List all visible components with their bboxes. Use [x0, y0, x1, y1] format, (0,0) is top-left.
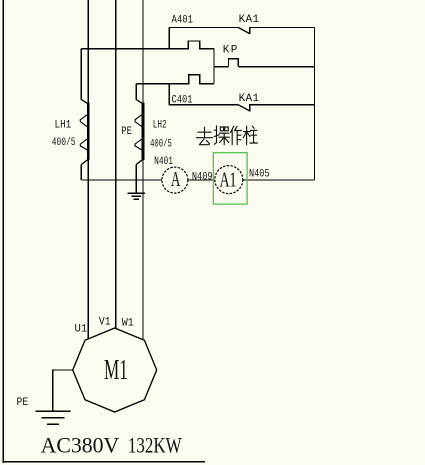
wire phase L2 vertical [115, 0, 117, 328]
svg-text:N405: N405 [249, 169, 270, 181]
wire phase L1 vertical [87, 0, 89, 339]
svg-text:400/5: 400/5 [52, 137, 76, 149]
svg-text:W1: W1 [122, 318, 134, 330]
wire phase L3 vertical [142, 0, 144, 340]
current transformer LH1 [80, 49, 88, 180]
wire PE motor lead [53, 370, 73, 411]
svg-text:400/5: 400/5 [150, 139, 172, 151]
svg-text:A401: A401 [172, 15, 194, 27]
svg-text:PE: PE [121, 126, 132, 138]
ground PE (motor) [35, 411, 70, 424]
wire C401 line [169, 104, 238, 106]
svg-text:N409: N409 [192, 172, 213, 184]
wire meter line left [81, 179, 161, 181]
wire KP line [214, 66, 229, 68]
wire N409 segment [188, 179, 215, 181]
frame left border [2, 0, 4, 463]
wire N405 segment [243, 179, 315, 181]
green highlight box [213, 153, 247, 204]
ammeter A circle [162, 167, 188, 193]
svg-text:KA1: KA1 [239, 93, 260, 105]
motor M1 octagon [73, 328, 157, 412]
plug right edge [213, 49, 215, 84]
frame bottom border [3, 461, 205, 463]
node C401 riser [168, 84, 170, 105]
node A401 riser [168, 28, 170, 49]
annotation 去操作柱 (hand-drawn strokes) [197, 126, 258, 145]
svg-text:A1: A1 [220, 167, 237, 191]
ground PE (under LH2 tap) [128, 193, 145, 199]
svg-text:U1: U1 [75, 324, 88, 336]
svg-text:LH2: LH2 [153, 120, 167, 132]
meter A1 circle [215, 166, 243, 194]
svg-text:A: A [171, 167, 181, 191]
svg-text:PE: PE [17, 397, 29, 409]
svg-text:M1: M1 [104, 354, 128, 386]
current transformer LH2 [135, 84, 143, 193]
wire KP line right [238, 66, 314, 68]
contact KA1 (bottom, N.O.) [238, 105, 314, 112]
bottom secondary bus [136, 75, 214, 84]
svg-text:V1: V1 [99, 317, 111, 329]
wire A401 line [169, 27, 238, 29]
svg-text:C401: C401 [172, 95, 193, 107]
svg-text:AC380V: AC380V [41, 432, 120, 457]
svg-text:KP: KP [223, 44, 238, 56]
contact KP [229, 59, 239, 67]
svg-text:LH1: LH1 [55, 120, 72, 132]
top secondary bus [81, 41, 214, 49]
svg-text:132KW: 132KW [128, 432, 182, 457]
wire right bus [314, 28, 316, 181]
svg-text:KA1: KA1 [239, 14, 260, 26]
contact KA1 (top, N.O.) [238, 28, 314, 35]
